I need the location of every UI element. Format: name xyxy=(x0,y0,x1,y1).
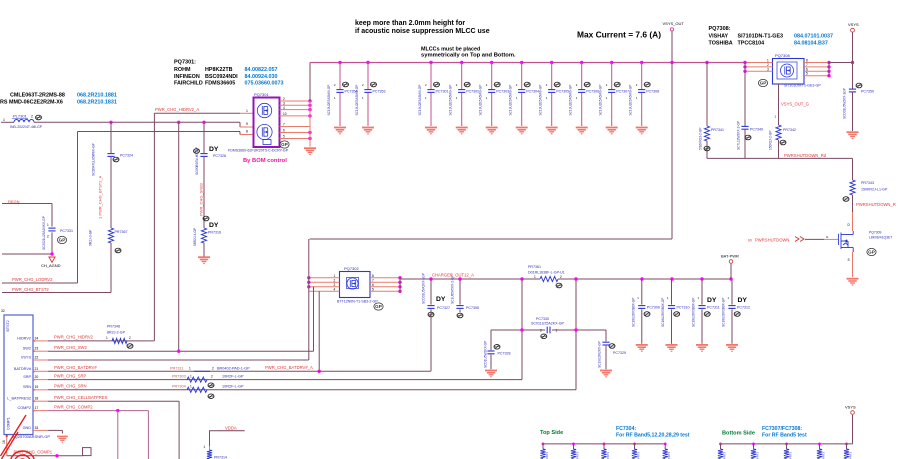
svg-text:PQ7302: PQ7302 xyxy=(344,266,359,271)
svg-text:HIDRV2: HIDRV2 xyxy=(17,336,31,340)
svg-text:5/16KR2J-2-GP: 5/16KR2J-2-GP xyxy=(699,128,703,151)
svg-text:56R2J-4-GP: 56R2J-4-GP xyxy=(193,227,197,246)
svg-text:16: 16 xyxy=(2,440,6,444)
svg-text:PWRSHUTDOWN_Rd: PWRSHUTDOWN_Rd xyxy=(784,153,827,158)
svg-text:SC19U2E5A5M/9-GP: SC19U2E5A5M/9-GP xyxy=(449,85,453,116)
svg-text:6: 6 xyxy=(806,67,808,71)
svg-text:7: 7 xyxy=(806,63,808,67)
svg-text:Bottom Side: Bottom Side xyxy=(722,431,755,437)
svg-text:SC19U2E5A5M/9-GP: SC19U2E5A5M/9-GP xyxy=(355,85,359,116)
svg-text:SCD01U5W2KX-1GP: SCD01U5W2KX-1GP xyxy=(843,88,847,119)
svg-text:INFINEON: INFINEON xyxy=(174,74,200,80)
svg-text:PC7302: PC7302 xyxy=(466,90,479,94)
svg-text:PQ7308:: PQ7308: xyxy=(709,26,731,32)
svg-text:HP8K22TB: HP8K22TB xyxy=(205,67,233,73)
svg-text:17: 17 xyxy=(35,406,39,410)
svg-text:PR7303: PR7303 xyxy=(172,374,186,378)
svg-text:SC19U2E5A5M/9-GP: SC19U2E5A5M/9-GP xyxy=(327,85,331,116)
svg-text:PR7311: PR7311 xyxy=(170,366,183,370)
svg-text:SC19U2E5A5M/9-GP: SC19U2E5A5M/9-GP xyxy=(539,85,543,116)
svg-text:SI7101DN-T1-GE3: SI7101DN-T1-GE3 xyxy=(738,33,784,39)
svg-text:6: 6 xyxy=(283,129,285,133)
svg-text:PC7311: PC7311 xyxy=(707,306,720,310)
svg-text:TPCC8104: TPCC8104 xyxy=(738,40,765,46)
svg-text:BAT-PWR: BAT-PWR xyxy=(721,254,739,259)
svg-text:PWR_CHG_SRN: PWR_CHG_SRN xyxy=(54,384,87,389)
svg-text:7: 7 xyxy=(372,279,374,283)
svg-text:SC18U28V3B0X-GP: SC18U28V3B0X-GP xyxy=(722,298,726,327)
svg-text:PC7331: PC7331 xyxy=(60,229,73,233)
svg-text:SC19U2E5A5M/9-GP: SC19U2E5A5M/9-GP xyxy=(509,85,513,116)
svg-text:150KR2J-L1-GP: 150KR2J-L1-GP xyxy=(861,188,888,192)
svg-text:PWR_CHG_BATDRV#: PWR_CHG_BATDRV# xyxy=(54,365,97,370)
svg-text:PR7314: PR7314 xyxy=(214,456,227,459)
svg-text:BTST2: BTST2 xyxy=(6,320,10,331)
svg-text:By BOM control: By BOM control xyxy=(243,158,287,164)
svg-text:SC011U25A2KX-GP: SC011U25A2KX-GP xyxy=(531,322,564,326)
svg-text:PR73: PR73 xyxy=(545,452,549,459)
svg-text:22: 22 xyxy=(35,355,39,359)
svg-text:S: S xyxy=(848,258,850,262)
svg-text:FAIRCHILD: FAIRCHILD xyxy=(174,81,203,87)
svg-text:PQ7301: PQ7301 xyxy=(254,92,269,97)
svg-text:PC7324: PC7324 xyxy=(120,154,133,158)
svg-text:GP: GP xyxy=(760,81,767,86)
svg-text:BR0402-PAD-1-GP: BR0402-PAD-1-GP xyxy=(217,366,250,370)
svg-text:BQ25700ARSNR-GP: BQ25700ARSNR-GP xyxy=(12,434,50,439)
svg-text:VSYS_OUT_G: VSYS_OUT_G xyxy=(781,102,809,107)
svg-text:PR73: PR73 xyxy=(637,452,641,459)
svg-text:7: 7 xyxy=(283,123,285,127)
svg-text:PC7326: PC7326 xyxy=(213,154,226,158)
svg-text:For RF Band5,12,20,28,29 test: For RF Band5,12,20,28,29 test xyxy=(616,432,690,438)
svg-text:VSYS: VSYS xyxy=(21,355,32,359)
svg-text:FDMS36605: FDMS36605 xyxy=(205,81,235,87)
svg-text:PR73: PR73 xyxy=(789,452,793,459)
svg-text:TOSHIBA: TOSHIBA xyxy=(709,40,733,46)
svg-text:PL7301: PL7301 xyxy=(13,114,28,119)
svg-text:PC7303: PC7303 xyxy=(496,90,509,94)
svg-text:CH_AGND: CH_AGND xyxy=(41,263,61,268)
svg-text:DY: DY xyxy=(209,146,219,153)
svg-text:9: 9 xyxy=(246,122,248,126)
svg-text:DY: DY xyxy=(209,222,219,229)
svg-text:SC19U2E5A5M/9-GP: SC19U2E5A5M/9-GP xyxy=(418,85,422,116)
svg-text:L8K06/41Q3ET: L8K06/41Q3ET xyxy=(869,236,892,240)
svg-text:VSYS_OUT: VSYS_OUT xyxy=(663,21,685,26)
svg-text:B7T12N0N-T1-SB3-2-GP: B7T12N0N-T1-SB3-2-GP xyxy=(337,300,378,304)
svg-text:4: 4 xyxy=(283,106,285,110)
svg-text:8: 8 xyxy=(372,274,374,278)
svg-text:84.08104.B37: 84.08104.B37 xyxy=(794,40,828,46)
svg-text:84.00924.030: 84.00924.030 xyxy=(245,74,278,80)
svg-text:2: 2 xyxy=(211,374,213,378)
svg-text:PR7342: PR7342 xyxy=(783,128,796,132)
svg-text:69: 69 xyxy=(748,239,752,243)
svg-text:SW2: SW2 xyxy=(23,347,31,351)
svg-text:L_BATPRES2: L_BATPRES2 xyxy=(7,397,31,401)
svg-text:33: 33 xyxy=(35,426,39,430)
svg-text:PC7307: PC7307 xyxy=(616,90,629,94)
svg-text:10: 10 xyxy=(283,112,287,116)
svg-text:PC7310: PC7310 xyxy=(677,306,690,310)
svg-text:PWR_CHG_CELLBATPRES: PWR_CHG_CELLBATPRES xyxy=(54,395,108,400)
svg-text:1: 1 xyxy=(204,445,206,449)
svg-text:GND: GND xyxy=(23,426,32,430)
svg-text:BATDRV#: BATDRV# xyxy=(14,367,32,371)
svg-text:Top Side: Top Side xyxy=(540,430,563,436)
svg-text:PWR_CHG_LODRV2: PWR_CHG_LODRV2 xyxy=(12,277,53,282)
svg-text:FDMS3660-62FUR20T5-C-DCRY-GP: FDMS3660-62FUR20T5-C-DCRY-GP xyxy=(228,149,289,153)
svg-text:SC19U2E5A5M/9-GP: SC19U2E5A5M/9-GP xyxy=(479,85,483,116)
svg-text:2: 2 xyxy=(540,328,542,332)
svg-text:4: 4 xyxy=(334,288,336,292)
svg-text:PR7361: PR7361 xyxy=(528,265,541,269)
svg-text:PWR_CHG_SW2: PWR_CHG_SW2 xyxy=(54,345,87,350)
svg-text:24: 24 xyxy=(35,336,39,340)
svg-text:PR7341: PR7341 xyxy=(711,128,724,132)
svg-text:PR73: PR73 xyxy=(667,452,671,459)
svg-text:23: 23 xyxy=(35,347,39,351)
svg-text:PR7316: PR7316 xyxy=(208,231,221,235)
svg-text:1: 1 xyxy=(246,109,248,113)
svg-text:PC7305: PC7305 xyxy=(556,90,569,94)
svg-text:8R2J-2-GP: 8R2J-2-GP xyxy=(107,331,126,335)
svg-text:PC7306: PC7306 xyxy=(586,90,599,94)
svg-text:8: 8 xyxy=(246,130,248,134)
svg-text:SC2021U25A2/9KX-GP: SC2021U25A2/9KX-GP xyxy=(42,216,46,250)
svg-text:PR73: PR73 xyxy=(576,452,580,459)
svg-text:2: 2 xyxy=(334,279,336,283)
svg-text:PWR_CHG_BTST2: PWR_CHG_BTST2 xyxy=(12,287,49,292)
svg-text:1: 1 xyxy=(190,374,192,378)
svg-text:PC7330: PC7330 xyxy=(536,317,549,321)
svg-text:VDDA: VDDA xyxy=(225,425,237,430)
svg-text:PWR_CHG_SRP: PWR_CHG_SRP xyxy=(54,373,87,378)
svg-text:VSYS: VSYS xyxy=(848,22,859,27)
svg-text:symmetrically on Top and Botto: symmetrically on Top and Bottom. xyxy=(421,52,516,58)
svg-text:6: 6 xyxy=(372,283,374,287)
svg-text:PR73: PR73 xyxy=(849,452,853,459)
svg-text:PQ7309: PQ7309 xyxy=(869,231,882,235)
svg-text:PC7308: PC7308 xyxy=(646,90,659,94)
svg-text:1: 1 xyxy=(47,223,49,227)
svg-text:FC7307/FC7308:: FC7307/FC7308: xyxy=(762,426,802,432)
svg-text:3: 3 xyxy=(767,67,769,71)
svg-text:SRP: SRP xyxy=(23,375,31,379)
svg-text:IND-2022/4T-4t8-GP: IND-2022/4T-4t8-GP xyxy=(10,125,43,129)
svg-text:PR7343: PR7343 xyxy=(861,181,874,185)
svg-text:PR7304: PR7304 xyxy=(172,385,186,389)
svg-text:CMLE063T-2R2MS-88: CMLE063T-2R2MS-88 xyxy=(10,93,65,99)
svg-text:PWR_CHG_COMP2: PWR_CHG_COMP2 xyxy=(54,405,93,410)
svg-text:10R2F-L-GP: 10R2F-L-GP xyxy=(222,374,244,378)
svg-text:PC7355: PC7355 xyxy=(466,306,479,310)
svg-text:PWR_CHG_BATDRV#_A: PWR_CHG_BATDRV#_A xyxy=(265,365,313,370)
svg-text:SCD047LL85W8X-GP: SCD047LL85W8X-GP xyxy=(92,142,96,176)
svg-text:5: 5 xyxy=(806,72,808,76)
svg-text:1: 1 xyxy=(534,275,536,279)
svg-text:VISHAY: VISHAY xyxy=(709,33,729,39)
svg-text:PR7348: PR7348 xyxy=(107,325,120,329)
svg-text:1: 1 xyxy=(189,366,191,370)
svg-text:PQ7301:: PQ7301: xyxy=(174,60,196,66)
svg-text:2: 2 xyxy=(129,336,131,340)
svg-text:SI7101DN-T1-GE3-GP: SI7101DN-T1-GE3-GP xyxy=(784,84,821,88)
svg-text:SC19U2E5A5M/9-GP: SC19U2E5A5M/9-GP xyxy=(599,85,603,116)
svg-text:19: 19 xyxy=(35,385,39,389)
svg-text:ROHM: ROHM xyxy=(174,67,191,73)
svg-text:1: 1 xyxy=(3,118,5,122)
svg-text:068.2R210.1881: 068.2R210.1881 xyxy=(77,93,117,99)
svg-text:For RF Band5 test: For RF Band5 test xyxy=(762,432,807,438)
svg-text:SC19U2E5A5M/9-GP: SC19U2E5A5M/9-GP xyxy=(569,85,573,116)
svg-text:PC7304: PC7304 xyxy=(526,90,539,94)
svg-text:PWRSHUTDOWN: PWRSHUTDOWN xyxy=(755,238,789,243)
svg-text:COMP2: COMP2 xyxy=(17,406,31,410)
svg-text:GP: GP xyxy=(868,250,875,255)
svg-text:PC7327: PC7327 xyxy=(437,306,450,310)
svg-text:GP: GP xyxy=(281,142,288,147)
svg-text:1: 1 xyxy=(767,59,769,63)
svg-text:1: 1 xyxy=(106,336,108,340)
svg-text:PR73: PR73 xyxy=(606,452,610,459)
svg-text:MLCCs must be placed: MLCCs must be placed xyxy=(421,46,480,52)
svg-text:DY: DY xyxy=(738,297,748,304)
svg-text:PWR_CHG_HIDRV2: PWR_CHG_HIDRV2 xyxy=(54,335,94,340)
svg-text:keep more than 2.0mm height fo: keep more than 2.0mm height for xyxy=(355,20,465,27)
svg-text:150R2J-2-GP: 150R2J-2-GP xyxy=(769,131,773,151)
svg-text:PC7309: PC7309 xyxy=(647,306,660,310)
svg-text:SG30B5SV-HX-GP: SG30B5SV-HX-GP xyxy=(195,146,199,175)
svg-text:SRN: SRN xyxy=(23,385,31,389)
svg-text:PC7312: PC7312 xyxy=(737,306,750,310)
svg-text:1: 1 xyxy=(556,328,558,332)
svg-text:PR73: PR73 xyxy=(822,452,826,459)
svg-text:2: 2 xyxy=(560,275,562,279)
svg-text:GP: GP xyxy=(375,304,382,309)
svg-text:2: 2 xyxy=(31,115,33,119)
svg-text:21: 21 xyxy=(35,367,39,371)
svg-text:SC18U28V3B0X-GP: SC18U28V3B0X-GP xyxy=(631,298,635,327)
svg-text:SCD1U5W2KX-GP: SCD1U5W2KX-GP xyxy=(484,341,488,368)
svg-text:1: 1 xyxy=(334,274,336,278)
svg-text:VSYS: VSYS xyxy=(845,405,856,410)
svg-text:BSC0924NDI: BSC0924NDI xyxy=(205,74,238,80)
svg-text:PC7349: PC7349 xyxy=(750,128,763,132)
svg-text:SCD01U5/A2KX-1GP: SCD01U5/A2KX-1GP xyxy=(422,273,426,304)
svg-text:PWRSHUTDOWN_R: PWRSHUTDOWN_R xyxy=(856,202,896,207)
svg-text:20: 20 xyxy=(35,375,39,379)
svg-text:PC7301: PC7301 xyxy=(436,90,449,94)
svg-text:PC7328: PC7328 xyxy=(498,352,511,356)
svg-text:COMP1: COMP1 xyxy=(7,417,11,430)
svg-text:PR73: PR73 xyxy=(756,452,760,459)
svg-text:32: 32 xyxy=(1,309,5,313)
svg-text:SC7L12W2KX-2-GP: SC7L12W2KX-2-GP xyxy=(737,121,741,150)
svg-text:DY: DY xyxy=(436,296,446,303)
svg-text:SC19U2W2KX-GP: SC19U2W2KX-GP xyxy=(598,341,602,368)
svg-text:084.07101.0037: 084.07101.0037 xyxy=(794,33,833,39)
svg-text:if acoustic noise suppression: if acoustic noise suppression MLCC use xyxy=(355,28,490,35)
svg-text:068.2R210.1831: 068.2R210.1831 xyxy=(77,100,117,106)
svg-text:SC1U85A5KX-2-GP: SC1U85A5KX-2-GP xyxy=(451,275,455,304)
svg-text:2: 2 xyxy=(47,235,49,239)
svg-text:075.03660.0073: 075.03660.0073 xyxy=(245,81,284,87)
svg-text:SC18U28V3B0X-GP: SC18U28V3B0X-GP xyxy=(661,298,665,327)
svg-text:8: 8 xyxy=(806,59,808,63)
svg-text:PR73: PR73 xyxy=(723,452,727,459)
svg-text:Max Current = 7.6 (A): Max Current = 7.6 (A) xyxy=(577,30,661,40)
svg-text:9R2J-3-GP: 9R2J-3-GP xyxy=(89,229,93,246)
svg-text:PC7329: PC7329 xyxy=(613,351,626,355)
svg-text:SC19U2E5A5M/9-GP: SC19U2E5A5M/9-GP xyxy=(629,85,633,116)
svg-text:18: 18 xyxy=(35,397,39,401)
svg-text:GP: GP xyxy=(59,238,66,243)
svg-text:2: 2 xyxy=(212,366,214,370)
svg-text:PC7353: PC7353 xyxy=(373,90,386,94)
svg-text:RS MMD-06C2E2R2M-X6: RS MMD-06C2E2R2M-X6 xyxy=(0,100,63,106)
svg-text:PQ7308: PQ7308 xyxy=(775,53,790,58)
svg-text:1: 1 xyxy=(190,385,192,389)
svg-text:SC18U28V3B0X-GP: SC18U28V3B0X-GP xyxy=(692,298,696,327)
svg-text:D01RL1638F-L-GP-U1: D01RL1638F-L-GP-U1 xyxy=(528,271,565,275)
svg-text:DY: DY xyxy=(707,297,717,304)
svg-text:2: 2 xyxy=(767,63,769,67)
svg-text:5: 5 xyxy=(372,288,374,292)
svg-text:3: 3 xyxy=(334,283,336,287)
svg-text:5: 5 xyxy=(283,135,285,139)
svg-text:PWR_CHG_HIDRV2_A: PWR_CHG_HIDRV2_A xyxy=(155,107,199,112)
svg-text:84.00822.057: 84.00822.057 xyxy=(245,67,278,73)
svg-text:1 PWR_CHG_BTST2_A: 1 PWR_CHG_BTST2_A xyxy=(98,175,103,219)
svg-text:PR7367: PR7367 xyxy=(115,230,128,234)
svg-text:10R2F-L-GP: 10R2F-L-GP xyxy=(222,385,244,389)
svg-text:PWR_CHG_SNB2: PWR_CHG_SNB2 xyxy=(199,182,204,216)
svg-text:FC7304:: FC7304: xyxy=(616,426,636,432)
svg-text:PC7350: PC7350 xyxy=(861,90,874,94)
